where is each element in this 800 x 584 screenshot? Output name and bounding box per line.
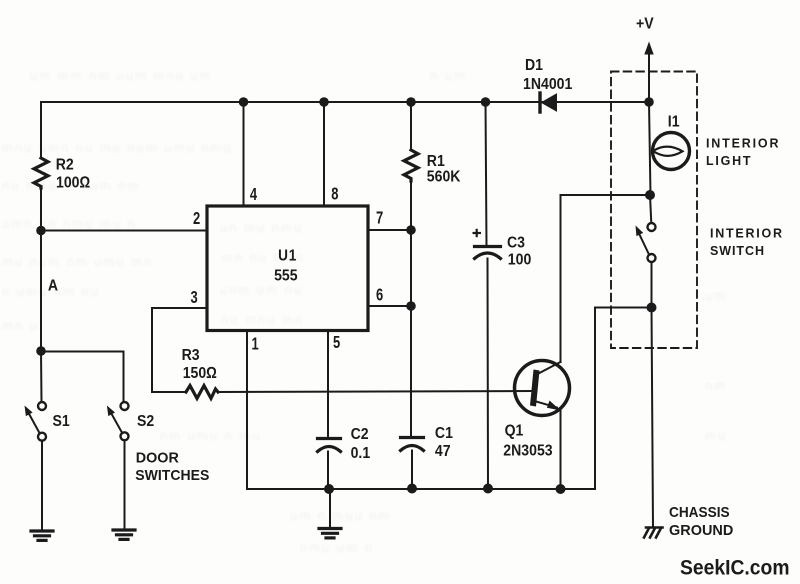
wire lamp node to interior switch bbox=[650, 195, 651, 223]
svg-text:7: 7 bbox=[376, 209, 383, 229]
label D1 bbox=[523, 56, 572, 93]
svg-text:100Ω: 100Ω bbox=[56, 174, 90, 192]
switch S2 bbox=[107, 402, 129, 440]
ground (S1) bbox=[31, 531, 53, 540]
svg-text:SWITCHES: SWITCHES bbox=[135, 467, 209, 484]
node A junction bbox=[36, 346, 46, 356]
svg-text:5: 5 bbox=[333, 333, 340, 353]
node pin4/top bus bbox=[239, 97, 249, 107]
wire R1 branch top bbox=[410, 102, 412, 150]
wire pin 7 bbox=[368, 229, 411, 231]
node R1/top bus bbox=[406, 97, 416, 107]
node +V/top bus bbox=[644, 97, 654, 107]
svg-text:150Ω: 150Ω bbox=[183, 364, 217, 382]
node pin8/top bus bbox=[319, 97, 329, 107]
wire C3 branch upper bbox=[486, 102, 487, 246]
wire pin 4 bbox=[243, 102, 245, 206]
wire top supply bus bbox=[41, 101, 649, 103]
svg-text:R2: R2 bbox=[56, 156, 74, 174]
wire diode to +V node bbox=[557, 101, 650, 103]
svg-text:C3: C3 bbox=[507, 234, 525, 252]
wire Q1 emitter to ground bus bbox=[560, 410, 562, 489]
svg-text:C2: C2 bbox=[351, 425, 369, 443]
svg-text:n um: n um bbox=[430, 68, 467, 83]
svg-text:4: 4 bbox=[250, 185, 257, 205]
svg-text:um n muu nm: um n muu nm bbox=[290, 508, 391, 523]
wire C1 to ground bus bbox=[411, 451, 413, 489]
svg-text:mu: mu bbox=[705, 428, 727, 443]
op IC U1 555 box bbox=[207, 206, 368, 331]
node C3/top bus bbox=[481, 97, 491, 107]
svg-text:D1: D1 bbox=[525, 56, 543, 74]
switch S1 bbox=[25, 402, 47, 441]
interior switch bbox=[636, 223, 656, 262]
svg-text:mn u: mn u bbox=[2, 318, 39, 333]
svg-text:1N4001: 1N4001 bbox=[523, 75, 572, 93]
label CHASSIS GROUND bbox=[669, 504, 733, 539]
wire pin2 horizontal bbox=[41, 230, 207, 232]
wire S2 to ground bbox=[124, 440, 126, 529]
svg-text:CHASSIS: CHASSIS bbox=[669, 504, 730, 521]
wire interior switch to chassis node bbox=[651, 262, 653, 308]
wire ground bus up right side bbox=[594, 308, 596, 490]
capacitor C2 bbox=[318, 439, 341, 452]
node R2/pin2 bbox=[36, 226, 46, 236]
transistor Q1 bbox=[515, 361, 570, 416]
enclosure dashed box bbox=[611, 72, 697, 349]
svg-text:Q1: Q1 bbox=[505, 422, 524, 440]
ground bus bottom bbox=[247, 488, 595, 490]
wire pin 5 / C2 branch upper bbox=[327, 331, 329, 439]
wire pin 1 to ground bus bbox=[246, 331, 248, 490]
wire C2 to ground bus bbox=[327, 452, 329, 490]
capacitor C1 bbox=[401, 438, 424, 451]
wire pin 8 bbox=[323, 102, 325, 206]
resistor R3 bbox=[186, 386, 218, 399]
label C2 bbox=[351, 425, 371, 462]
node switch/chassis bbox=[647, 303, 657, 313]
node lamp/collector bbox=[645, 190, 655, 200]
label R3 bbox=[182, 346, 217, 382]
wire right riser to chassis line bbox=[595, 307, 652, 309]
svg-text:INTERIOR: INTERIOR bbox=[706, 137, 779, 151]
svg-text:nmu um n: nmu um n bbox=[300, 540, 374, 555]
node pin6/R1 bbox=[406, 301, 416, 311]
label C3 bbox=[507, 234, 531, 269]
node pin7/R1 bbox=[406, 225, 416, 235]
wire collector to lamp node bbox=[561, 194, 651, 196]
ground (signal, below C2 node) bbox=[329, 489, 331, 527]
svg-text:0.1: 0.1 bbox=[351, 444, 371, 462]
wire R2 to node A bbox=[40, 188, 42, 351]
wire pin 3 branch to R3 bbox=[152, 308, 207, 392]
wire pin 6 bbox=[368, 305, 411, 307]
wire R3 to Q1 base bbox=[218, 391, 531, 392]
svg-text:um mm nm uum mnu um: um mm nm uum mnu um bbox=[30, 68, 212, 83]
svg-text:nu mnu mn: nu mnu mn bbox=[221, 312, 304, 327]
svg-text:+V: +V bbox=[636, 14, 654, 32]
wire R1 to pin7/pin6 nodes down to C1 bbox=[410, 181, 412, 437]
lamp I1 bbox=[653, 133, 690, 170]
svg-text:DOOR: DOOR bbox=[136, 450, 179, 467]
resistor R1 bbox=[404, 150, 418, 181]
resistor R2 bbox=[34, 158, 48, 188]
wire node A to S2 branch bbox=[41, 352, 124, 403]
label INTERIOR SWITCH bbox=[710, 226, 782, 258]
faint bleed-through ghost rows (decorative) bbox=[2, 68, 727, 555]
svg-text:un mu nmu: un mu nmu bbox=[220, 220, 303, 235]
ground (S2) bbox=[113, 530, 135, 539]
svg-text:INTERIOR: INTERIOR bbox=[710, 226, 782, 240]
svg-text:LIGHT: LIGHT bbox=[706, 154, 751, 168]
node C2/ground bus bbox=[324, 484, 334, 494]
label INTERIOR LIGHT bbox=[706, 137, 779, 169]
svg-text:S1: S1 bbox=[53, 412, 70, 430]
svg-text:1: 1 bbox=[252, 335, 259, 355]
svg-text:3: 3 bbox=[191, 288, 198, 308]
svg-text:555: 555 bbox=[274, 267, 297, 285]
svg-text:R3: R3 bbox=[182, 346, 200, 364]
node C3/ground bus bbox=[483, 484, 493, 494]
svg-text:umn un nmu mu n: umn un nmu mu n bbox=[2, 216, 137, 231]
svg-text:C1: C1 bbox=[435, 424, 453, 442]
label U1 555 bbox=[274, 247, 297, 284]
wire +V node down to lamp bbox=[649, 102, 651, 195]
power +V arrow bbox=[644, 42, 653, 103]
diode D1 bbox=[540, 93, 557, 112]
svg-text:S2: S2 bbox=[137, 412, 154, 430]
svg-text:SeekIC.com: SeekIC.com bbox=[680, 556, 790, 580]
wire node A to S1 bbox=[40, 351, 43, 402]
wire C3 to ground bus bbox=[487, 259, 490, 489]
label R2 bbox=[56, 156, 91, 192]
svg-text:8: 8 bbox=[331, 184, 338, 204]
label DOOR SWITCHES bbox=[135, 450, 209, 485]
svg-text:um: um bbox=[705, 288, 727, 303]
svg-text:mnu umn nu mu num umu nmu: mnu umn nu mu num umu nmu bbox=[2, 140, 233, 155]
svg-text:560K: 560K bbox=[427, 168, 461, 186]
chassis ground symbol bbox=[644, 528, 663, 538]
capacitor C3 bbox=[475, 247, 501, 259]
wire chassis drop bbox=[652, 308, 654, 528]
wire left branch upper (top bus to R2) bbox=[40, 102, 42, 158]
svg-text:2N3053: 2N3053 bbox=[503, 441, 552, 459]
svg-text:6: 6 bbox=[376, 286, 383, 306]
svg-text:100: 100 bbox=[508, 251, 531, 269]
label R1 bbox=[427, 152, 461, 185]
svg-text:U1: U1 bbox=[278, 247, 297, 264]
wire Q1 collector up bbox=[560, 195, 562, 362]
svg-text:nm: nm bbox=[705, 378, 727, 393]
svg-text:GROUND: GROUND bbox=[669, 522, 733, 539]
label C3 polarity + bbox=[473, 229, 482, 237]
faint bleed-through rows over box (decorative) bbox=[220, 220, 305, 327]
label Q1 bbox=[503, 422, 552, 460]
svg-text:SWITCH: SWITCH bbox=[710, 244, 764, 258]
svg-text:A: A bbox=[48, 277, 58, 295]
svg-text:mu num nm umu mn: mu num nm umu mn bbox=[2, 254, 153, 269]
label C1 bbox=[435, 424, 453, 460]
svg-text:I1: I1 bbox=[668, 113, 680, 131]
wire S1 to ground bbox=[41, 441, 43, 530]
svg-text:47: 47 bbox=[435, 442, 451, 460]
node C1/ground bus bbox=[407, 484, 417, 494]
svg-text:2: 2 bbox=[193, 209, 200, 229]
node emitter/ground bus bbox=[556, 484, 566, 494]
